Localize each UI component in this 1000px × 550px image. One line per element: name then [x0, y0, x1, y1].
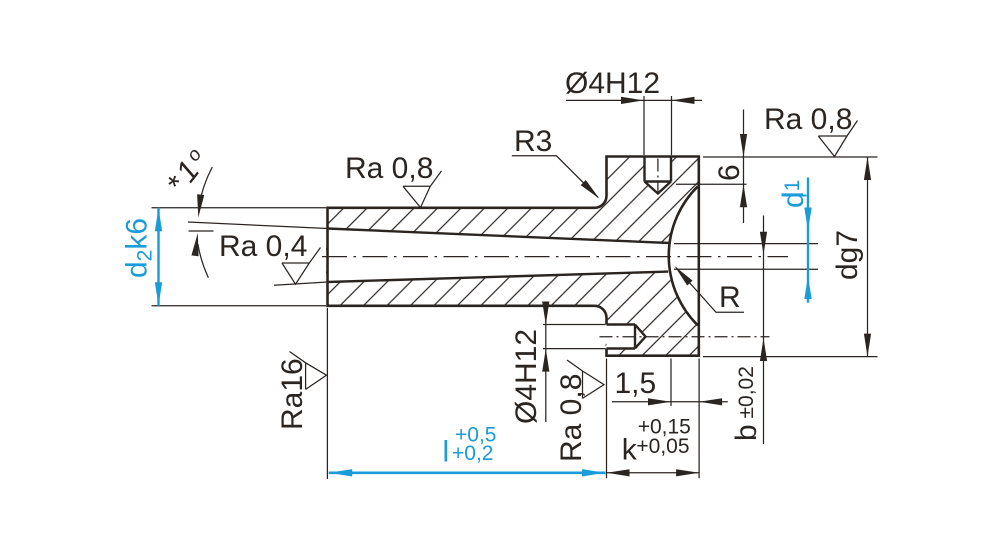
svg-text:Ra 0,8: Ra 0,8: [764, 103, 852, 136]
1,5 extension line: [670, 359, 672, 407]
svg-text:+0,05: +0,05: [636, 435, 689, 458]
svg-text:Ra 0,8: Ra 0,8: [345, 152, 433, 185]
svg-text:dg7: dg7: [831, 230, 864, 280]
Ra 0,8 right symbol: [818, 121, 857, 157]
depth 6 extension line: [676, 183, 747, 185]
svg-text:Ø4H12: Ø4H12: [510, 329, 543, 424]
angle reference tick: [189, 230, 214, 232]
svg-text:Ra 0,4: Ra 0,4: [219, 230, 307, 263]
d1 dimension line: [807, 178, 809, 303]
k extension lines: [607, 359, 700, 479]
svg-text:Ra16: Ra16: [276, 358, 309, 430]
Ra 0,8 shank symbol: [403, 171, 442, 208]
svg-text:d2k6: d2k6: [121, 218, 157, 278]
spherical recess arc R: [669, 186, 698, 325]
top hole dimension line: [566, 99, 702, 101]
R leader: [676, 268, 744, 313]
main centerline: [322, 256, 788, 258]
1,5 dimension line: [612, 401, 728, 403]
d1 extension lines: [674, 244, 818, 270]
Ra16 symbol: [290, 352, 327, 390]
svg-text:k: k: [622, 434, 638, 467]
bottom hole dia extension lines: [543, 325, 606, 349]
svg-text:R3: R3: [514, 125, 552, 158]
d1 underline bar: [783, 195, 807, 197]
head bottom extension line: [703, 356, 878, 358]
svg-text:6: 6: [713, 164, 746, 181]
svg-text:+0,2: +0,2: [452, 442, 493, 465]
svg-text:Ø4H12: Ø4H12: [565, 67, 660, 100]
svg-text:R: R: [719, 281, 741, 314]
bore taper top line: [328, 229, 670, 244]
svg-text:1,5: 1,5: [615, 367, 657, 400]
part outline: [328, 157, 699, 356]
bottom hole outline: [607, 325, 646, 349]
k dimension line: [607, 472, 700, 474]
Ra 0,4 symbol: [282, 248, 321, 285]
b dimension line: [763, 216, 765, 445]
top hole outline: [645, 157, 672, 194]
l dimension line: [329, 471, 606, 474]
part body hatched section: [326, 156, 699, 356]
angle arc lower: [198, 244, 209, 278]
top hole centerline: [657, 159, 659, 201]
bottom hole centerline: [600, 336, 770, 338]
d2k6 dimension line: [157, 208, 159, 306]
head top extension line: [703, 156, 878, 158]
angle arc upper: [199, 167, 212, 206]
bottom hole dimension line: [545, 302, 547, 422]
taper extension line: [188, 222, 328, 229]
bottom taper extension: [274, 282, 328, 285]
depth 6 dimension line: [743, 110, 745, 224]
svg-text:l: l: [443, 436, 450, 469]
Ra16 extension line: [326, 308, 328, 479]
top hole extension lines: [644, 96, 672, 155]
d2k6 extension lines: [152, 208, 327, 306]
dg7 dimension line: [867, 157, 869, 357]
R3 leader: [512, 156, 598, 198]
bore taper bottom line: [328, 272, 669, 282]
Ra 0,8 bottom symbol: [567, 360, 604, 398]
